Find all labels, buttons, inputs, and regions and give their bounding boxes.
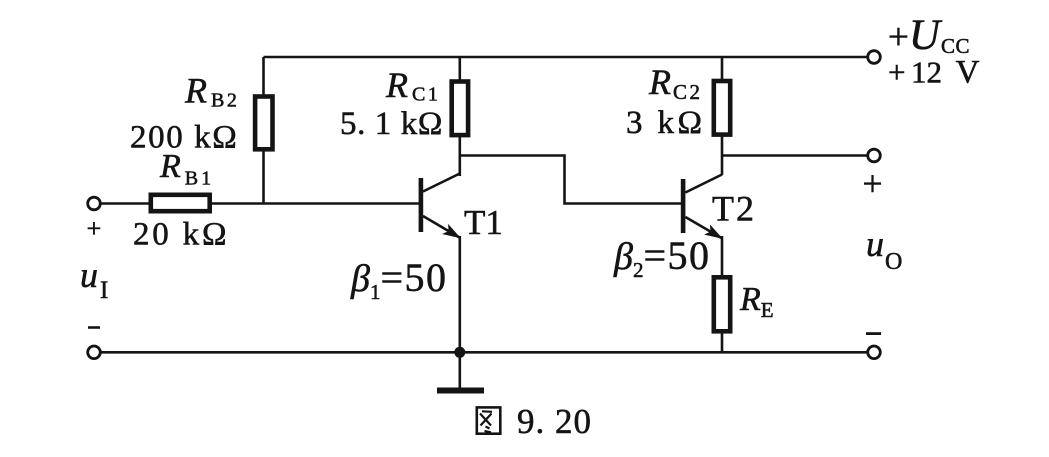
transistor T2 — [681, 175, 722, 239]
terminal output plus — [868, 149, 881, 162]
wire RB2 branch vertical — [262, 57, 265, 204]
wire top +Ucc rail — [264, 56, 868, 59]
svg-text:RC1: RC1 — [385, 65, 440, 106]
svg-text:T2: T2 — [712, 189, 756, 229]
wire input base line — [101, 202, 420, 205]
terminal input — [88, 197, 101, 210]
wire bottom rail — [101, 351, 868, 354]
svg-text:uO: uO — [866, 224, 902, 275]
svg-text:β2=50: β2=50 — [613, 233, 711, 282]
wire RC2 branch vertical — [721, 57, 724, 175]
caption glyph tu (figure) — [477, 407, 501, 433]
terminal output minus — [868, 346, 881, 359]
wire RC2 to output terminal — [722, 154, 867, 157]
svg-text:3 kΩ: 3 kΩ — [626, 105, 705, 141]
svg-text:+: + — [87, 214, 102, 243]
svg-text:RC2: RC2 — [648, 62, 703, 104]
label +Ucc +12V — [888, 12, 980, 91]
svg-text:200 kΩ: 200 kΩ — [130, 120, 238, 156]
svg-text:+: + — [862, 164, 882, 204]
resistor RB1 — [151, 195, 210, 211]
terminal input bottom — [88, 346, 101, 359]
svg-text:20 kΩ: 20 kΩ — [133, 217, 229, 253]
resistor RE — [714, 277, 730, 331]
svg-text:RB2: RB2 — [184, 71, 239, 112]
terminal +Ucc — [868, 51, 881, 64]
wire interstage link — [460, 156, 681, 204]
ground — [437, 352, 484, 390]
wire T2 emitter to RE — [721, 236, 724, 352]
svg-text:uI: uI — [80, 255, 108, 304]
svg-text:T1: T1 — [464, 203, 503, 242]
junction node emitter/ground — [454, 347, 465, 358]
svg-text:RE: RE — [739, 281, 774, 322]
transistor T1 — [419, 174, 460, 238]
resistor RC2 — [714, 81, 730, 135]
label input minus — [88, 326, 100, 329]
resistor RB2 — [255, 97, 272, 150]
label output minus — [866, 332, 881, 335]
svg-text:+12 V: +12 V — [888, 55, 980, 91]
wire RC1 branch vertical — [458, 57, 461, 176]
svg-text:5. 1 kΩ: 5. 1 kΩ — [340, 106, 443, 142]
svg-text:β1=50: β1=50 — [350, 255, 448, 304]
resistor RC1 — [452, 82, 468, 136]
svg-text:9. 20: 9. 20 — [517, 402, 592, 441]
wire T1 emitter to ground rail — [458, 236, 461, 352]
svg-text:+UCC: +UCC — [888, 12, 970, 59]
